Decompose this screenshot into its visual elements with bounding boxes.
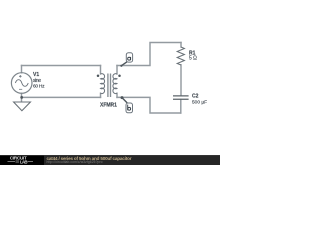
svg-text:C2: C2 <box>192 94 199 100</box>
svg-text:60 Hz: 60 Hz <box>33 83 45 89</box>
svg-text:500 µF: 500 µF <box>192 100 207 106</box>
svg-text:sine: sine <box>33 78 41 84</box>
svg-text:V1: V1 <box>33 72 39 78</box>
svg-text:http://circuitlab.com/c/w3zfg6: http://circuitlab.com/c/w3zfg625?pro <box>47 160 103 164</box>
svg-text:LAB: LAB <box>20 159 28 164</box>
svg-text:5 Ω: 5 Ω <box>189 56 197 62</box>
svg-text:XFMR1: XFMR1 <box>100 103 117 109</box>
